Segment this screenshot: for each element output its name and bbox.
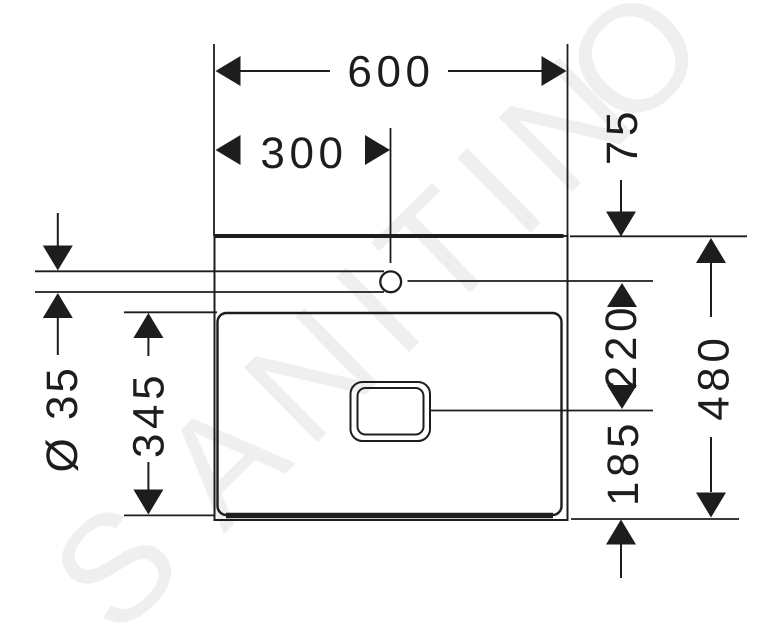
- top right extension line: [570, 235, 747, 237]
- dimension Ø35: [38, 213, 87, 472]
- washbasin outer outline: [215, 236, 568, 520]
- washbasin inner bowl: [218, 313, 562, 515]
- bowl bottom extension line (345): [124, 514, 214, 516]
- hole top tangent line: [35, 270, 384, 272]
- drain leader line: [430, 410, 653, 412]
- washbasin top front edge (thick): [215, 234, 564, 238]
- faucet hole: [380, 271, 401, 292]
- dimension 600: [216, 48, 567, 97]
- svg-text:345: 345: [125, 371, 174, 458]
- dimension 480: [690, 238, 739, 518]
- bowl top extension line (345): [124, 311, 217, 313]
- dimension 345: [125, 313, 174, 515]
- bowl bottom thick edge: [226, 513, 553, 519]
- svg-text:185: 185: [599, 419, 648, 506]
- svg-text:480: 480: [690, 334, 739, 421]
- svg-text:300: 300: [260, 129, 347, 178]
- faucet hole leader line: [408, 280, 654, 282]
- left extension line (600): [213, 44, 215, 236]
- svg-text:220: 220: [597, 303, 646, 390]
- svg-text:600: 600: [347, 48, 434, 97]
- dimension 185: [599, 419, 648, 578]
- hole bottom tangent line: [35, 291, 384, 293]
- dimension 300: [216, 129, 391, 178]
- extension lines: [35, 44, 747, 519]
- dimension 220: [597, 283, 646, 409]
- drain outer: [351, 382, 431, 441]
- svg-text:Ø 35: Ø 35: [38, 365, 87, 472]
- drain inner: [358, 388, 424, 435]
- faucet centre line (300): [390, 128, 392, 263]
- right extension line (600): [567, 44, 569, 236]
- bottom right extension line: [571, 518, 739, 520]
- dimension 75: [598, 107, 647, 237]
- svg-text:75: 75: [598, 107, 647, 165]
